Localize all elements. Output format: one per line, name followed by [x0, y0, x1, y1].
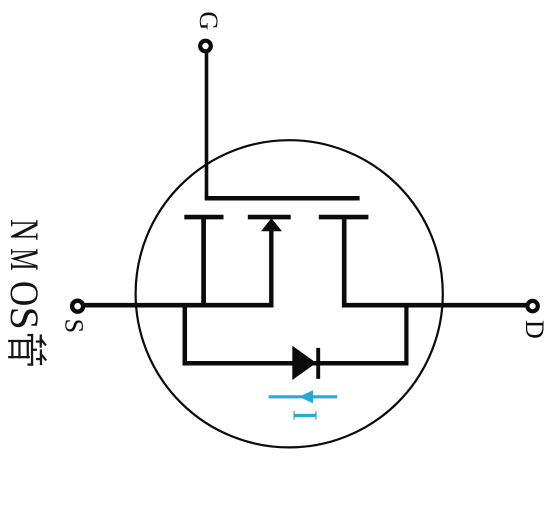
label NMOS letter M [1, 248, 45, 270]
body-diode loop bottom wire [183, 361, 409, 366]
body-diode loop right wire [404, 304, 408, 365]
transistor body circle [136, 140, 443, 447]
svg-text:I: I [286, 410, 325, 422]
label NMOS letter O [1, 281, 46, 306]
svg-text:O: O [1, 281, 46, 306]
svg-text:N: N [2, 219, 47, 241]
terminal G pad [200, 41, 211, 52]
terminal D pad [527, 301, 537, 311]
label NMOS letter N [2, 219, 47, 241]
current arrow wire [269, 395, 338, 398]
svg-text:G: G [194, 11, 223, 30]
channel segment (source side) [184, 215, 223, 220]
source wire [83, 303, 274, 308]
gate bar [205, 196, 360, 201]
label NMOS letter S [2, 307, 46, 330]
channel segment (drain side) [319, 215, 369, 220]
svg-text:D: D [520, 320, 549, 339]
source leg wire [201, 218, 206, 308]
diode D1 cathode bar [316, 348, 320, 379]
drain wire [342, 303, 527, 308]
svg-text:S: S [60, 319, 89, 333]
svg-text:M: M [1, 248, 45, 270]
body-diode loop left wire [183, 304, 188, 365]
terminal S pad [72, 301, 83, 312]
body arrow [261, 218, 282, 231]
diode D1 triangle [292, 346, 316, 380]
gate wire [205, 52, 209, 198]
body leg wire [269, 228, 273, 307]
current arrow head [299, 390, 313, 403]
channel segment (body, middle) [248, 215, 291, 220]
drain leg wire [342, 218, 347, 308]
label 管 (drawn glyph, rotated 90) [9, 335, 45, 365]
svg-text:S: S [2, 307, 46, 330]
